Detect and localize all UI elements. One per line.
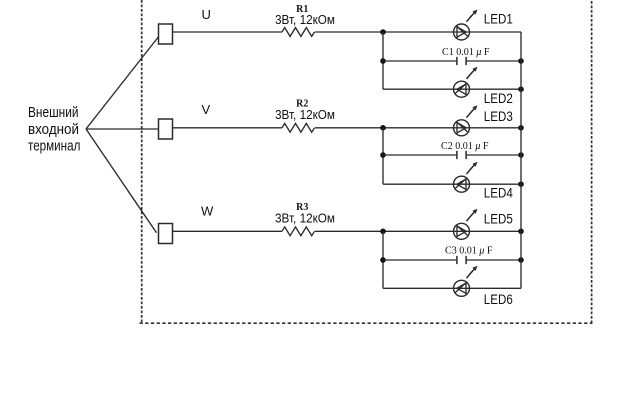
svg-text:U: U — [202, 7, 211, 22]
node: C2 right — [518, 152, 524, 158]
svg-text:LED6: LED6 — [484, 292, 513, 307]
svg-text:LED5: LED5 — [484, 211, 513, 226]
node: junction U branch — [380, 29, 386, 35]
wire: W terminal to R3 — [173, 230, 283, 232]
terminal V — [159, 119, 173, 139]
LED LED3 — [454, 120, 470, 136]
wire: V terminal to R2 — [173, 127, 283, 129]
arrow of LED3 — [467, 105, 478, 117]
wire: U terminal to R1 — [173, 31, 283, 33]
wire: R1 to LED1 row — [315, 31, 521, 33]
wire: LED2 row — [383, 88, 521, 90]
capacitor C3 — [457, 256, 466, 264]
svg-text:LED1: LED1 — [484, 11, 513, 26]
svg-text:входной: входной — [28, 122, 79, 138]
node: junction V branch — [380, 125, 386, 131]
LED LED1 — [454, 24, 470, 40]
arrow of LED2 — [467, 67, 478, 79]
wire: LED4 row — [383, 183, 521, 185]
node: LED2 right — [518, 86, 524, 92]
svg-text:3Вт, 12кОм: 3Вт, 12кОм — [275, 210, 335, 225]
svg-text:C3 0.01 μ F: C3 0.01 μ F — [445, 246, 493, 257]
resistor R2 — [282, 123, 315, 132]
arrow of LED5 — [467, 209, 478, 221]
terminal W — [159, 224, 173, 244]
svg-text:W: W — [201, 203, 214, 218]
wire: C3 row — [383, 259, 521, 261]
svg-text:C2 0.01 μ F: C2 0.01 μ F — [441, 141, 489, 152]
node: junction C1 left — [380, 58, 386, 64]
wire: C2 row — [383, 154, 521, 156]
node: V main right — [518, 125, 524, 131]
capacitor C1 — [457, 57, 466, 65]
wire: LED6 row — [383, 287, 521, 289]
svg-text:V: V — [202, 102, 211, 117]
svg-text:LED3: LED3 — [484, 109, 513, 124]
resistor R1 — [282, 28, 315, 37]
arrow of LED6 — [467, 266, 478, 278]
wire: left branch vertical group3 — [382, 231, 384, 288]
LED LED4 — [454, 176, 470, 192]
wire: C1 row — [383, 60, 521, 62]
node: C1 right — [518, 58, 524, 64]
svg-text:3Вт, 12кОм: 3Вт, 12кОм — [275, 12, 335, 27]
wire fan from label point to terminal U — [86, 37, 158, 129]
capacitor C2 — [457, 151, 466, 159]
wire: R2 to LED3 row — [315, 127, 521, 129]
LED LED6 — [454, 280, 470, 296]
terminal U — [159, 24, 173, 44]
node: junction W branch — [380, 229, 386, 235]
node: junction C3 left — [380, 257, 386, 263]
svg-text:C1 0.01 μ F: C1 0.01 μ F — [442, 47, 490, 58]
node: W main right — [518, 229, 524, 235]
node: C3 right — [518, 257, 524, 263]
arrow of LED1 — [467, 10, 478, 22]
wire fan from label point to terminal V — [86, 128, 159, 130]
LED LED5 — [454, 223, 470, 239]
svg-text:LED4: LED4 — [484, 185, 513, 200]
svg-text:терминал: терминал — [28, 139, 80, 155]
svg-text:3Вт, 12кОм: 3Вт, 12кОм — [275, 107, 335, 122]
wire: R3 to LED5 row — [315, 230, 521, 232]
svg-text:LED2: LED2 — [484, 91, 513, 106]
wire: left branch vertical group1 — [382, 32, 384, 89]
resistor R3 — [282, 227, 315, 236]
wire fan from label point to terminal W — [86, 129, 157, 233]
LED LED2 — [454, 81, 470, 97]
wire: right common bus — [520, 32, 522, 288]
enclosure dashed border (left, bottom, right) — [140, 0, 593, 323]
node: junction C2 left — [380, 152, 386, 158]
wire: left branch vertical group2 — [382, 128, 384, 184]
node: LED4 right — [518, 181, 524, 187]
label: external input terminal — [28, 105, 80, 155]
arrow of LED4 — [467, 162, 478, 174]
svg-text:Внешний: Внешний — [28, 105, 79, 121]
